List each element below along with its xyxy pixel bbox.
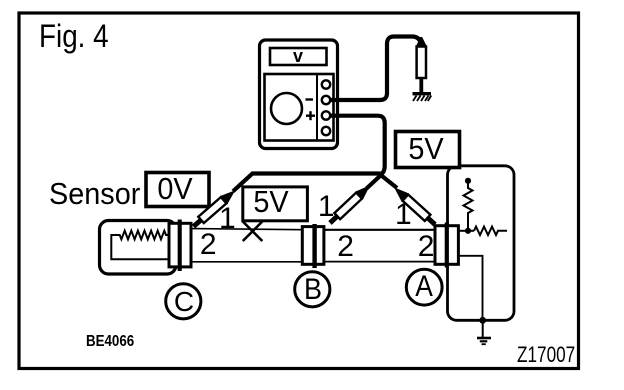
minus polarity mark	[306, 98, 314, 100]
open-circuit X mark	[243, 222, 262, 242]
ground probe guard	[416, 37, 427, 47]
title Fig. 4	[39, 20, 109, 52]
voltmeter terminal column divider	[316, 74, 318, 141]
node A letter	[415, 272, 433, 302]
voltmeter body	[260, 40, 338, 149]
node C circle	[161, 279, 205, 323]
ECU box	[448, 166, 515, 320]
voltmeter display V reading	[293, 47, 303, 65]
voltmeter lower panel	[265, 74, 334, 141]
pin label 2 at connector C	[200, 230, 217, 260]
wire: harness pin2 C-B	[192, 261, 302, 263]
connector C housing	[169, 223, 191, 267]
node C letter	[174, 288, 194, 316]
voltmeter terminal jack 4	[322, 127, 330, 135]
node: ground junction dot	[479, 317, 486, 324]
connector A housing	[435, 226, 458, 265]
wire: connector A pin 2 to ECU ground	[459, 256, 483, 321]
label box 0V	[146, 173, 209, 207]
node B circle	[290, 267, 334, 311]
pin label 1 at connector C	[219, 204, 236, 234]
voltmeter dial	[271, 93, 302, 124]
label box 5V (top right)	[396, 132, 460, 168]
node: 5V supply dot	[465, 178, 471, 184]
wire: probe bus to sensor-side probe	[233, 174, 381, 192]
resistor: sensor element with return loop	[111, 231, 167, 260]
connector C divider	[178, 220, 182, 272]
label box 5V (middle)	[243, 187, 308, 221]
node B letter	[304, 275, 322, 305]
label text 5V (top right)	[408, 133, 443, 164]
node: signal junction dot	[465, 228, 471, 234]
wire: harness pin1 B-A	[324, 229, 435, 231]
resistor: ECU pull-up (vertical)	[464, 184, 473, 231]
wire: connector A pin 1 to junction	[459, 230, 474, 232]
voltmeter terminal jack 3 (positive)	[322, 111, 330, 119]
voltmeter terminal jack 1	[322, 80, 330, 88]
node A circle	[402, 265, 446, 309]
connector A divider	[445, 223, 449, 268]
wire: negative test lead to ground probe	[330, 37, 421, 101]
chassis ground bar	[413, 92, 432, 95]
connector B divider	[312, 224, 316, 268]
wire: cable A probe to junction	[382, 176, 397, 188]
connector B housing	[302, 227, 324, 265]
caption BE4066	[86, 334, 134, 350]
label text 5V (middle)	[253, 186, 288, 217]
junction of test leads	[378, 172, 384, 178]
pin label 2 at connector B	[337, 232, 354, 262]
wire: cable B probe to junction	[367, 176, 381, 189]
voltmeter terminal jack 2 (negative)	[322, 96, 330, 104]
plus polarity mark	[306, 111, 315, 120]
wire: harness pin2 B-A	[324, 261, 435, 263]
earth ground symbol	[477, 338, 491, 344]
caption Z17007	[517, 344, 575, 366]
chassis ground hatching	[413, 96, 431, 102]
test probe at connector B pin 1	[326, 183, 372, 227]
sensor body	[100, 221, 177, 275]
resistor: ECU series (horizontal)	[474, 227, 507, 235]
label Sensor	[49, 178, 140, 209]
test probe at connector C pin 1	[190, 188, 237, 231]
ground probe shaft	[417, 47, 426, 79]
label text 0V	[157, 173, 192, 204]
wire: ground stub	[482, 321, 484, 338]
wire: positive test lead down to probe junction	[330, 116, 385, 175]
voltmeter display window	[270, 48, 327, 65]
pin label 2 at connector A	[418, 232, 435, 262]
ground probe tip	[419, 78, 423, 93]
pin label 1 at connector A	[395, 200, 412, 230]
pin label 1 at connector B	[318, 192, 335, 222]
test probe at connector A pin 1	[392, 185, 439, 229]
wire: harness pin1 C-B (broken)	[192, 229, 302, 230]
